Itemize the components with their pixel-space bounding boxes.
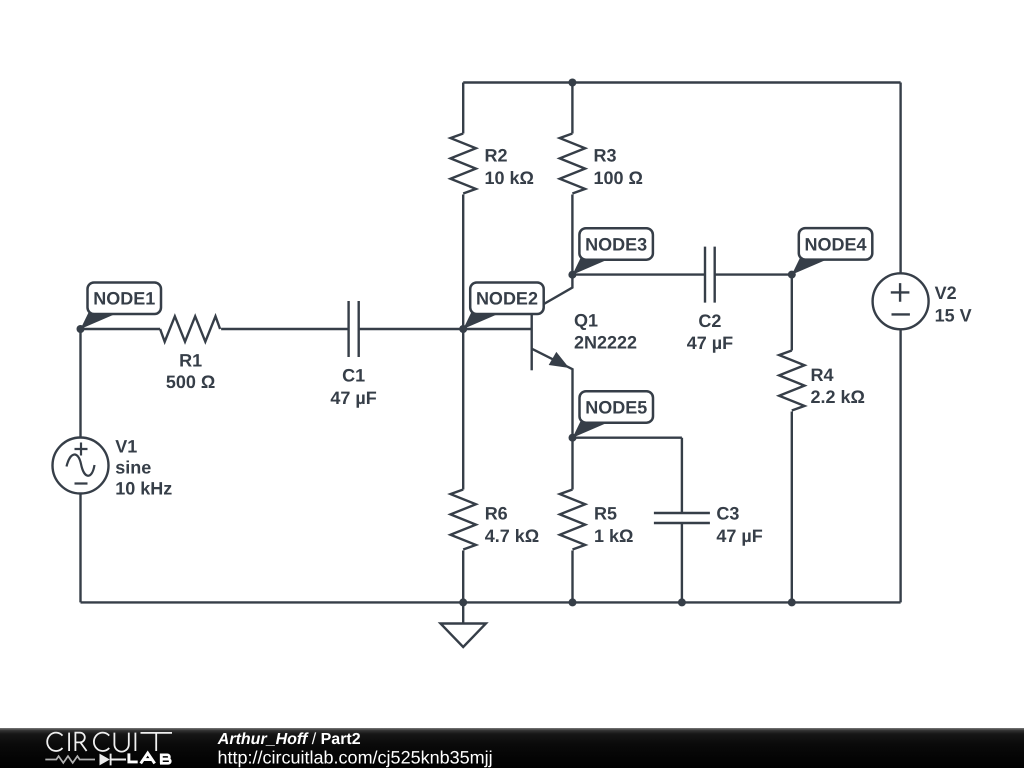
wire C2 to node4 [715,273,792,275]
resistor R2 [451,134,476,194]
svg-text:4.7 kΩ: 4.7 kΩ [485,526,539,546]
wire V2 bottom lead [899,329,901,602]
svg-text:NODE4: NODE4 [805,234,867,254]
transistor Q1 [531,311,533,370]
junction bottom rail R5 [569,598,577,606]
node label NODE3 [572,228,653,275]
voltage source V2 [873,273,929,329]
junction bottom rail R4 [788,598,796,606]
transistor Q1 base wire [463,328,532,330]
wire bottom rail [81,601,901,603]
node NODE4 dot [788,271,796,279]
svg-text:R6: R6 [485,504,508,524]
svg-text:R5: R5 [594,504,617,524]
svg-text:2.2 kΩ: 2.2 kΩ [811,387,865,407]
resistor R6 [451,490,476,550]
resistor R4 [779,351,804,411]
svg-text:NODE2: NODE2 [476,289,538,309]
ground [441,602,486,647]
wire node5 to C3 [573,437,682,439]
label R6 value [485,504,539,547]
CircuitLab logo LAB [129,753,170,763]
svg-text:100 Ω: 100 Ω [594,168,643,188]
svg-text:NODE5: NODE5 [585,397,647,417]
CircuitLab logo wordmark CIRCUIT [47,733,172,752]
resistor R5 [560,490,585,550]
wire node1 to R1 [81,328,161,330]
voltage source V1 [53,438,109,494]
node label NODE5 [573,391,654,438]
node NODE2 dot [459,325,467,333]
svg-text:V2: V2 [935,283,957,303]
svg-text:C1: C1 [342,366,365,386]
junction bottom rail R6 [459,598,467,606]
svg-text:10 kΩ: 10 kΩ [485,168,534,188]
node NODE1 dot [77,325,85,333]
CircuitLab logo resistor-diode glyph [45,756,95,763]
label R4 value [811,365,865,407]
wire C1 to node2 [359,328,464,330]
svg-text:47 µF: 47 µF [687,333,733,353]
footer bar [0,728,1024,768]
wire R4 bottom lead [791,412,793,603]
svg-text:15 V: 15 V [935,305,972,325]
svg-text:500 Ω: 500 Ω [166,372,215,392]
svg-text:47 µF: 47 µF [716,526,762,546]
wire R2 bottom to node2 to R6 top [462,195,464,490]
junction top rail R3 [568,79,576,87]
label R5 value [594,504,633,547]
wire V1 top lead [79,329,81,438]
svg-text:V1: V1 [115,436,137,456]
svg-text:R2: R2 [485,146,508,166]
resistor R1 [160,316,220,341]
svg-text:R3: R3 [594,146,617,166]
capacitor C3 [654,513,710,523]
wire R6 bottom lead [462,551,464,603]
capacitor C2 [705,247,715,303]
svg-text:10 kHz: 10 kHz [115,478,172,498]
transistor Q1 emitter arrow [550,353,568,368]
wire R2 top lead [462,83,464,134]
svg-text:Arthur_Hoff / Part2: Arthur_Hoff / Part2 [217,731,361,748]
wire R5 bottom lead [571,551,573,603]
wire V1 bottom lead [79,494,81,603]
svg-text:1 kΩ: 1 kΩ [594,526,633,546]
label R2 value [485,146,534,188]
svg-text:R1: R1 [179,350,202,370]
wire C3 top lead [681,438,683,513]
svg-text:2N2222: 2N2222 [574,333,637,353]
svg-text:47 µF: 47 µF [330,388,376,408]
junction bottom rail C3 [678,598,686,606]
wire R5 top lead [571,438,573,490]
wire node3 to C2 [572,273,705,275]
node label NODE4 [792,228,873,275]
node label NODE2 [463,283,544,330]
label C1 value [330,366,376,408]
svg-text:R4: R4 [811,365,834,385]
label V2 value [935,283,972,325]
svg-text:http://circuitlab.com/cj525knb: http://circuitlab.com/cj525knb35mjj [218,748,493,768]
label R3 value [594,146,643,188]
wire top rail [463,81,900,83]
label Q1 value [574,310,637,352]
node NODE3 dot [568,271,576,279]
wire R3 top lead [571,83,573,134]
wire V2 top lead [899,83,901,274]
label R1 value [166,350,215,392]
label C2 value [687,311,733,353]
svg-text:C2: C2 [698,311,721,331]
node NODE5 dot [569,434,577,442]
svg-text:NODE1: NODE1 [93,289,155,309]
svg-text:Q1: Q1 [574,310,598,330]
resistor R3 [560,134,585,194]
wire node4 to R4 [791,275,793,351]
wire C3 bottom lead [681,523,683,602]
node label NODE1 [81,283,162,330]
label C3 value [716,504,762,547]
wire R1 to C1 [221,328,349,330]
svg-text:sine: sine [115,457,151,477]
capacitor C1 [349,301,359,357]
svg-text:NODE3: NODE3 [585,234,647,254]
wire R3 bottom to node3 [571,195,573,275]
label V1 value [115,436,172,498]
svg-text:C3: C3 [716,504,739,524]
